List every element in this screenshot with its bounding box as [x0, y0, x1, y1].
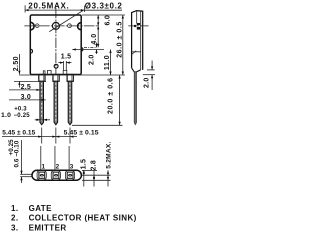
side center line [128, 25, 148, 27]
bottom edge circle [54, 64, 58, 68]
hole center line horizontal [24, 25, 99, 27]
pin leader 1 [40, 146, 42, 170]
svg-text:3: 3 [70, 163, 74, 170]
svg-text:11.0: 11.0 [104, 55, 111, 70]
dim 0.6 left [20, 173, 33, 175]
svg-text:0.6 −0.10: 0.6 −0.10 [14, 140, 21, 167]
right edge notch [78, 23, 82, 30]
side mold line [136, 11, 138, 24]
lead 1 center dash [41, 83, 43, 121]
pin pocket 3 [65, 171, 74, 180]
svg-text:2.: 2. [11, 214, 18, 223]
dim 26.0 [122, 15, 124, 75]
svg-text:6.0: 6.0 [104, 15, 111, 25]
small circle left [35, 24, 39, 28]
bottom view stadium [32, 170, 81, 180]
side lower front face [132, 68, 141, 72]
svg-text:3.: 3. [11, 223, 18, 232]
svg-text:2: 2 [56, 163, 60, 170]
ext seating plane [19, 74, 125, 76]
svg-text:EMITTER: EMITTER [29, 223, 67, 232]
svg-text:GATE: GATE [29, 204, 52, 213]
ext shoulder [14, 80, 46, 82]
svg-text:20.0 ± 0.6: 20.0 ± 0.6 [107, 77, 114, 114]
hole center line vertical [55, 8, 57, 75]
lead 2 center dash [55, 83, 57, 121]
lead 1 shank [40, 81, 44, 125]
svg-text:5.45 ± 0.15: 5.45 ± 0.15 [2, 130, 35, 137]
svg-text:1.: 1. [11, 204, 18, 213]
svg-text:1: 1 [42, 163, 46, 170]
side lead [134, 72, 136, 125]
side hole section lower [137, 27, 140, 30]
lead 3 base [67, 75, 73, 82]
front view body [30, 15, 81, 75]
pin pocket 1 [37, 171, 46, 180]
svg-text:COLLECTOR (HEAT SINK): COLLECTOR (HEAT SINK) [29, 214, 137, 223]
svg-text:2.8: 2.8 [91, 160, 98, 170]
mounting hole [52, 22, 59, 29]
pin pocket 2 [51, 171, 60, 180]
side body outline [132, 11, 143, 70]
side back inner line [140, 11, 142, 70]
lead 3 shank [68, 81, 72, 125]
bottom edge bump solid [43, 71, 45, 75]
svg-text:2.0: 2.0 [143, 78, 150, 88]
dim 5.45 pitch lines [41, 128, 43, 144]
dim 20.0 [72, 124, 123, 126]
small circle right [68, 24, 72, 28]
pin leader 3 [68, 146, 70, 170]
boss center line [84, 46, 96, 48]
dim 6.0 [97, 15, 99, 26]
svg-text:+0.3: +0.3 [14, 107, 27, 113]
lead 2 base [53, 75, 59, 82]
dim 4.0 [97, 26, 99, 48]
lead 3 center dash [69, 83, 71, 121]
svg-text:1.5: 1.5 [61, 53, 71, 60]
pin 3 [67, 172, 73, 178]
svg-text:Ø3.3±0.2: Ø3.3±0.2 [85, 1, 123, 10]
lead 1 base [39, 75, 45, 82]
dim 11.0 [110, 50, 112, 76]
svg-text:1.0: 1.0 [1, 112, 11, 119]
svg-text:5.45 ± 0.15: 5.45 ± 0.15 [64, 130, 99, 137]
svg-text:−0.25: −0.25 [14, 113, 31, 119]
bottom edge notch [63, 70, 67, 74]
svg-text:5.2MAX.: 5.2MAX. [105, 141, 112, 168]
right edge bump [81, 48, 83, 52]
left edge bump [31, 49, 33, 53]
bottom edge bump outline [48, 70, 52, 74]
left edge notch [30, 22, 34, 30]
lead 2 shank [54, 81, 58, 125]
side step [132, 51, 141, 53]
bottom right ext lines [82, 169, 97, 171]
pin leader 2 [54, 146, 56, 170]
svg-text:2.0: 2.0 [89, 55, 96, 65]
ext top edge [82, 14, 125, 16]
dim 2.0 side [147, 69, 155, 71]
pin 1 [39, 172, 45, 178]
svg-text:20.5MAX.: 20.5MAX. [28, 1, 69, 10]
svg-text:26.0 ± 0.5: 26.0 ± 0.5 [116, 21, 123, 58]
dim 2.0 right column [96, 43, 98, 48]
side hole section upper [137, 23, 140, 25]
pin 2 [53, 172, 59, 178]
boss ext line [72, 49, 104, 51]
svg-text:1.5: 1.5 [81, 159, 88, 169]
side hole hidden left [134, 25, 136, 27]
